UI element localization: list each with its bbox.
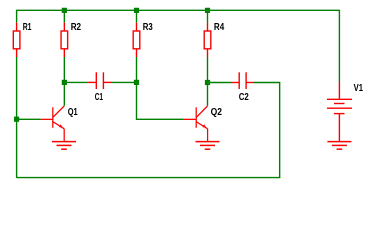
wire R2 top stub — [63, 10, 65, 23]
wire C2 left — [208, 82, 232, 84]
wire R3 top stub — [136, 10, 138, 23]
svg-text:Q1: Q1 — [68, 107, 78, 118]
transistor Q1 — [41, 106, 64, 141]
node junction C2 left — [205, 80, 210, 85]
node junction R3 top — [134, 8, 139, 13]
svg-text:V1: V1 — [354, 83, 364, 94]
ground Q2 emitter — [196, 142, 220, 150]
wire C2 right horizontal — [254, 82, 280, 84]
svg-text:R4: R4 — [214, 22, 225, 33]
wire corner to Q2 base — [137, 118, 184, 120]
wire C1 right — [112, 81, 137, 83]
node junction C1 left — [62, 80, 67, 85]
wire battery top — [338, 10, 340, 82]
transistor Q2 — [184, 106, 208, 141]
wire R3 bottom to corner — [136, 57, 138, 120]
wire bottom rail — [17, 177, 281, 179]
wire C1 left — [64, 81, 87, 83]
capacitor C1 — [88, 72, 112, 89]
node junction R2 top — [62, 8, 67, 13]
resistor R3 — [133, 23, 140, 57]
wire left rail — [16, 10, 18, 23]
capacitor C2 — [231, 72, 254, 89]
resistor R4 — [204, 23, 211, 57]
wire left rail lower — [16, 57, 18, 178]
wire top rail — [17, 9, 340, 11]
svg-text:Q2: Q2 — [211, 107, 223, 118]
node junction C1 right — [134, 80, 139, 85]
svg-text:R1: R1 — [23, 22, 32, 33]
wire R2 bottom to Q1 collector — [63, 57, 65, 106]
wire C2 right riser — [279, 83, 281, 178]
ground battery — [327, 142, 351, 150]
svg-text:C2: C2 — [239, 92, 249, 103]
battery V1 — [327, 82, 352, 141]
wire R4 top stub — [207, 10, 209, 23]
svg-text:C1: C1 — [95, 92, 104, 103]
wire R4 bottom to Q2 collector — [207, 57, 209, 106]
node junction Q1 base — [14, 117, 19, 122]
svg-text:R2: R2 — [71, 22, 82, 33]
node junction R4 top — [205, 8, 210, 13]
ground Q1 emitter — [52, 142, 76, 150]
resistor R2 — [61, 23, 68, 57]
svg-text:R3: R3 — [143, 22, 153, 33]
resistor R1 — [13, 23, 20, 57]
wire Q1 base — [17, 118, 41, 120]
